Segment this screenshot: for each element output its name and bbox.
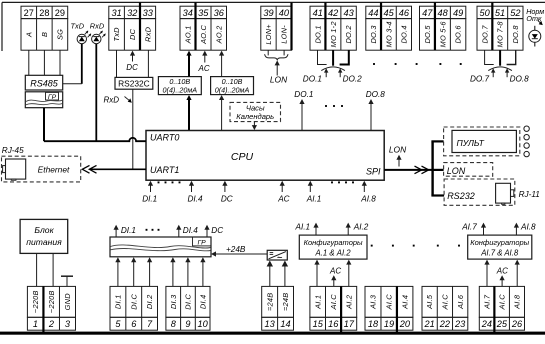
LED TxD (RS-485 transmit indicator) xyxy=(71,22,92,44)
svg-text:AI.7: AI.7 xyxy=(482,294,491,310)
svg-text:36: 36 xyxy=(214,8,225,18)
svg-text:AI.1: AI.1 xyxy=(295,222,311,231)
svg-text:AI.7: AI.7 xyxy=(461,222,477,231)
svg-text:26: 26 xyxy=(511,319,523,329)
left border wire xyxy=(1,2,3,51)
terminal block 1-3 (~220V,GND) xyxy=(27,286,75,330)
svg-text:SG: SG xyxy=(56,29,65,40)
configurator block AI.7 & AI.8 xyxy=(468,235,532,259)
svg-text:TxD: TxD xyxy=(112,27,121,42)
svg-text:AC: AC xyxy=(277,195,289,204)
clock/calendar dashed block xyxy=(230,102,281,121)
svg-text:Часы: Часы xyxy=(246,103,265,112)
label +24V wire into GR block xyxy=(211,245,267,257)
galvanic isolation block GR (discrete inputs) xyxy=(110,237,211,257)
svg-text:DC: DC xyxy=(128,28,137,40)
svg-text:AI.2: AI.2 xyxy=(345,295,354,310)
signal DI.1 arrow from GR block xyxy=(114,225,136,237)
svg-text:3: 3 xyxy=(65,319,71,329)
svg-text:8: 8 xyxy=(171,319,177,329)
svg-text:=24В: =24В xyxy=(281,293,290,311)
svg-text:RxD: RxD xyxy=(90,22,105,31)
svg-text:21: 21 xyxy=(424,319,435,329)
wire LED TxD to RS485 block xyxy=(81,44,83,84)
svg-text:DO.1: DO.1 xyxy=(303,75,322,84)
wire terminal 14 into converter xyxy=(284,266,286,287)
svg-text:AI.8: AI.8 xyxy=(520,222,536,231)
svg-text:~220В: ~220В xyxy=(31,290,40,313)
status LED Norm/Otk xyxy=(526,7,544,47)
svg-text:48: 48 xyxy=(438,8,449,18)
svg-text:+24В: +24В xyxy=(226,245,246,254)
DC/DC converter block above terminals 13-14 xyxy=(267,250,287,260)
svg-text:DO.8: DO.8 xyxy=(511,25,520,44)
svg-text:39: 39 xyxy=(263,8,273,18)
svg-text:Конфигураторы: Конфигураторы xyxy=(304,238,363,247)
svg-text:AO.1: AO.1 xyxy=(183,25,192,44)
label DC with arrow into terminal 32 xyxy=(126,51,138,72)
svg-text:AI.C: AI.C xyxy=(498,294,507,311)
thick bus drop wire at terminal block 34-36 (AO.1,AO.C,AO.2) xyxy=(194,2,196,50)
svg-text:DC: DC xyxy=(126,63,138,72)
svg-text:9: 9 xyxy=(185,319,190,329)
Ethernet dashed block xyxy=(2,156,81,182)
LON net funnel from terminals 39/40 xyxy=(265,50,288,84)
PULT (control panel) dashed block xyxy=(444,127,520,156)
signal AC arrow into CPU xyxy=(277,181,289,204)
wire RS232C down to UART1 net xyxy=(132,89,134,169)
svg-text:AI.8: AI.8 xyxy=(513,294,522,310)
svg-text:20: 20 xyxy=(399,319,411,329)
svg-text:LON: LON xyxy=(389,144,407,154)
terminal block 13-14 (=24V) xyxy=(262,286,294,330)
svg-text:AI.2: AI.2 xyxy=(353,222,369,231)
wire terminal 31 to RS232C xyxy=(116,50,118,77)
svg-text:AC: AC xyxy=(198,64,210,73)
svg-text:~220В: ~220В xyxy=(47,290,56,313)
svg-text:RxD: RxD xyxy=(104,95,120,104)
svg-text:35: 35 xyxy=(198,8,209,18)
svg-text:AI.4: AI.4 xyxy=(401,295,410,310)
wire converter #2 to terminal 36 (AO.2) xyxy=(221,55,223,77)
wire converter #1 to terminal 34 (AO.1) xyxy=(188,55,190,77)
svg-text:52: 52 xyxy=(510,8,520,18)
signal AI.7 arrow from configurator xyxy=(461,222,486,235)
terminal block 44-46 (DO.3,MO3-4,DO.4) xyxy=(366,6,412,50)
wire UART0 net with hop over RS232C wire xyxy=(44,138,146,141)
svg-text:DI.1: DI.1 xyxy=(142,195,157,204)
terminal block 31-33 (RS-232C: TxD,DC,RxD) xyxy=(109,6,156,50)
signal DI.4 arrow from GR block xyxy=(176,225,198,237)
svg-text:AI.1: AI.1 xyxy=(306,195,322,204)
wire terminal 15 into configurator xyxy=(316,264,318,287)
svg-text:16: 16 xyxy=(328,319,339,329)
svg-text:17: 17 xyxy=(344,319,355,329)
svg-text:AI.1: AI.1 xyxy=(313,295,322,310)
terminal block 41-43 (DO.1,MO1-2,DO.2) xyxy=(310,6,356,50)
relay changeover contact symbol DO.7/DO.8 (terminals 50-52) xyxy=(470,50,529,83)
svg-text:1: 1 xyxy=(33,319,38,329)
svg-text:29: 29 xyxy=(55,8,65,18)
thick bus drop wire at terminal block 47-49 (DO.5,MO5-6,DO.6) xyxy=(434,2,436,50)
svg-text:41: 41 xyxy=(313,8,323,18)
svg-text:0(4)..20мА: 0(4)..20мА xyxy=(215,85,250,94)
signal DO.1 arrow from CPU xyxy=(294,90,313,131)
signal DI.1 arrow into CPU xyxy=(142,181,157,204)
wire terminal 27 to RS485 xyxy=(28,50,30,75)
wire CPU to converter #2 xyxy=(221,99,223,131)
svg-text:44: 44 xyxy=(368,8,378,18)
svg-text:DO.3: DO.3 xyxy=(369,25,378,44)
label LON with arrow from SPI net xyxy=(389,144,407,166)
signal AI.8 arrow from configurator xyxy=(514,222,536,235)
svg-text:DI.4: DI.4 xyxy=(188,195,203,204)
svg-text:DI.4: DI.4 xyxy=(183,226,198,235)
svg-text:0(4)..20мА: 0(4)..20мА xyxy=(163,85,198,94)
svg-text:GND: GND xyxy=(63,293,72,311)
svg-text:RxD: RxD xyxy=(143,26,152,42)
svg-text:DI.1: DI.1 xyxy=(114,295,123,310)
svg-text:CPU: CPU xyxy=(231,151,254,163)
svg-text:DI.3: DI.3 xyxy=(169,294,178,309)
svg-text:42: 42 xyxy=(328,8,338,18)
svg-text:19: 19 xyxy=(384,319,394,329)
svg-text:DO.2: DO.2 xyxy=(343,75,363,84)
terminal block 8-10 (DI.3,DI.C,DI.4) xyxy=(166,286,210,330)
wire power block to terminal 1 xyxy=(36,253,38,286)
svg-text:AI.C: AI.C xyxy=(385,294,394,311)
wire terminal 33 to RS232C xyxy=(147,50,149,77)
signal AI.1 arrow into CPU xyxy=(306,181,322,204)
thick bus drop wire at terminal block 31-33 (RS-232C: TxD,DC,RxD) xyxy=(139,2,141,50)
svg-text:питания: питания xyxy=(26,237,62,247)
wire branch to PULT block xyxy=(431,140,443,142)
wire terminal 28 to RS485 xyxy=(43,50,45,75)
svg-text:25: 25 xyxy=(496,319,508,329)
dots between configurator blocks xyxy=(371,245,460,247)
svg-text:51: 51 xyxy=(495,8,505,18)
svg-text:Ethernet: Ethernet xyxy=(38,165,70,175)
svg-text:RS232C: RS232C xyxy=(118,78,150,88)
svg-text:DO.8: DO.8 xyxy=(366,90,386,99)
svg-text:32: 32 xyxy=(127,8,137,18)
svg-text:DI.C: DI.C xyxy=(129,294,138,310)
svg-text:LON: LON xyxy=(447,166,466,176)
svg-text:5: 5 xyxy=(115,319,121,329)
wire terminal 13 into converter xyxy=(269,266,271,287)
svg-text:AC: AC xyxy=(329,267,341,276)
label AC with arrow into terminal 35 (AO.C) xyxy=(198,51,210,73)
terminal block 15-17 (AI.1,AI.C,AI.2) xyxy=(310,286,357,330)
wire LED RxD down to UART0 net xyxy=(95,44,97,142)
label RxD tap on RS232C wire xyxy=(104,95,132,104)
svg-text:DO.5: DO.5 xyxy=(423,25,432,44)
svg-text:AI.6: AI.6 xyxy=(456,294,465,310)
thick bus drop wire at terminal block 41-43 (DO.1,MO1-2,DO.2) xyxy=(324,2,326,50)
terminal block 39-40 (LON+,LON-) xyxy=(261,6,292,50)
wire clock block to CPU xyxy=(253,122,255,127)
wire terminal 29 to RS485 xyxy=(59,50,61,75)
dots between DO signals xyxy=(325,105,343,107)
power supply block xyxy=(20,219,68,253)
svg-text:DO.1: DO.1 xyxy=(294,90,313,99)
terminal block 50-52 (DO.7,MO7-8,DO.8) xyxy=(477,6,523,50)
dots DI signals above GR xyxy=(146,229,160,231)
interface block RS485 xyxy=(25,75,62,90)
svg-text:AI.8: AI.8 xyxy=(360,195,376,204)
svg-text:AO.C: AO.C xyxy=(199,24,208,44)
svg-text:DO.8: DO.8 xyxy=(510,75,530,84)
LON interface dashed block xyxy=(444,163,493,177)
svg-text:AI.7 & AI.8: AI.7 & AI.8 xyxy=(480,249,519,258)
thick bus drop wire at terminal block 39-40 (LON+,LON-) xyxy=(290,2,292,50)
svg-text:46: 46 xyxy=(399,8,410,18)
svg-text:SPI: SPI xyxy=(366,167,381,177)
thick bus drop wire at terminal block 50-52 (DO.7,MO7-8,DO.8) xyxy=(491,2,493,50)
svg-text:DO.7: DO.7 xyxy=(470,75,490,84)
svg-text:18: 18 xyxy=(368,319,379,329)
svg-text:DO.6: DO.6 xyxy=(454,25,463,44)
label AC with arrow from terminal 25 xyxy=(496,267,508,287)
label AC with arrow from terminal 16 xyxy=(329,267,341,287)
svg-text:24: 24 xyxy=(481,319,492,329)
terminal block 34-36 (AO.1,AO.C,AO.2) xyxy=(180,6,227,50)
svg-text:AI.3: AI.3 xyxy=(369,294,378,310)
wire GR block down to UART0 net xyxy=(43,108,45,142)
bottom common bus wire xyxy=(0,332,545,335)
CPU block xyxy=(146,131,384,181)
svg-text:RS232: RS232 xyxy=(447,191,475,201)
svg-text:AI.C: AI.C xyxy=(441,294,450,311)
RS232 interface dashed block xyxy=(444,179,515,205)
svg-text:40: 40 xyxy=(279,8,290,18)
wire branch to LON block xyxy=(431,169,443,171)
svg-text:AO.2: AO.2 xyxy=(214,25,223,44)
terminal block 24-26 (AI.7,AI.C,AI.8) xyxy=(479,286,524,330)
wire SPI net from CPU xyxy=(384,169,432,171)
wire CPU to converter #1 xyxy=(188,99,190,131)
AO converter block 0..10V / 0(4)..20mA #1 xyxy=(158,77,201,95)
RJ-11 connector icon xyxy=(496,183,514,204)
svg-text:MO 5-6: MO 5-6 xyxy=(438,21,447,48)
wire RS485 to TxD LED xyxy=(63,83,82,85)
svg-text:ПУЛЬТ: ПУЛЬТ xyxy=(457,138,485,148)
svg-text:14: 14 xyxy=(280,319,290,329)
wire trunk to panel blocks xyxy=(431,141,433,195)
svg-text:LON+: LON+ xyxy=(264,24,273,45)
svg-text:B: B xyxy=(40,32,49,37)
thick bus drop wire at terminal block 1-3 (~220V,GND) xyxy=(42,286,44,333)
svg-text:47: 47 xyxy=(422,8,433,18)
terminal block 47-49 (DO.5,MO5-6,DO.6) xyxy=(420,6,466,50)
svg-text:А.1 & AI.2: А.1 & AI.2 xyxy=(315,249,352,258)
dots DI signals xyxy=(158,181,181,183)
configurator block AI.1 & AI.2 xyxy=(299,235,367,259)
svg-text:27: 27 xyxy=(24,8,34,18)
thick bus drop wire at terminal block 18-20 (AI.3,AI.C,AI.4) xyxy=(396,286,398,333)
svg-text:Конфигураторы: Конфигураторы xyxy=(470,238,529,247)
interface block RS232C xyxy=(115,77,153,89)
svg-text:DI.1: DI.1 xyxy=(121,226,136,235)
chevron arrows into Ethernet block xyxy=(82,165,96,173)
svg-text:34: 34 xyxy=(183,8,193,18)
terminal block 27-29 (RS-485: A,B,SG) xyxy=(21,6,68,50)
svg-text:50: 50 xyxy=(480,8,491,18)
thick bus drop wire at terminal block 44-46 (DO.3,MO3-4,DO.4) xyxy=(380,2,382,50)
svg-text:AC: AC xyxy=(496,267,508,276)
signal AI.8 arrow into CPU xyxy=(360,181,376,204)
svg-text:23: 23 xyxy=(454,319,466,329)
svg-text:DI.2: DI.2 xyxy=(145,295,154,310)
svg-text:AI.C: AI.C xyxy=(329,294,338,311)
LED RxD (RS-485 receive indicator) xyxy=(90,22,106,44)
svg-text:=24В: =24В xyxy=(265,293,274,311)
svg-text:RJ-45: RJ-45 xyxy=(2,146,24,155)
panel connector circles xyxy=(524,126,529,157)
svg-text:A: A xyxy=(24,32,33,38)
dots AI signals xyxy=(331,181,354,183)
signal DC arrow into CPU xyxy=(221,181,233,204)
svg-text:LON: LON xyxy=(270,74,288,84)
svg-text:ГР: ГР xyxy=(48,94,57,101)
svg-text:DC: DC xyxy=(221,195,233,204)
svg-text:ГР: ГР xyxy=(197,239,206,246)
wire branch to RS232 block xyxy=(431,194,444,196)
svg-text:UART0: UART0 xyxy=(150,133,179,143)
signal AI.2 arrow from configurator xyxy=(346,222,369,235)
svg-text:45: 45 xyxy=(384,8,395,18)
wire terminal 17 into configurator xyxy=(348,264,350,287)
svg-text:AI.5: AI.5 xyxy=(425,294,434,310)
svg-text:6: 6 xyxy=(131,319,137,329)
svg-text:Блок: Блок xyxy=(34,225,54,235)
svg-text:2: 2 xyxy=(48,319,54,329)
signal DC arrow from GR block xyxy=(204,225,223,237)
svg-text:49: 49 xyxy=(453,8,463,18)
signal AI.1 arrow from configurator xyxy=(295,222,319,235)
thick bus drop wire at terminal block 15-17 (AI.1,AI.C,AI.2) xyxy=(340,286,342,333)
svg-text:MO 1-2: MO 1-2 xyxy=(329,21,338,47)
svg-text:RJ-11: RJ-11 xyxy=(519,190,540,199)
chevron arrows on SPI net xyxy=(415,166,429,174)
svg-text:Календарь: Календарь xyxy=(236,112,274,121)
ground symbol above terminal 3 xyxy=(61,276,73,286)
svg-text:7: 7 xyxy=(147,319,153,329)
svg-text:22: 22 xyxy=(439,319,450,329)
svg-text:DO.4: DO.4 xyxy=(399,25,408,43)
signal DI.4 arrow into CPU xyxy=(188,181,203,204)
svg-text:DC: DC xyxy=(211,226,223,235)
svg-text:DO.7: DO.7 xyxy=(480,25,489,44)
svg-text:DO.2: DO.2 xyxy=(344,25,353,43)
terminal block 5-7 (DI.1,DI.C,DI.2) xyxy=(110,286,158,330)
wire terminal 26 into configurator xyxy=(516,264,518,287)
svg-text:UART1: UART1 xyxy=(150,165,179,175)
wire UART1 net xyxy=(91,168,147,170)
svg-text:TxD: TxD xyxy=(71,22,85,31)
relay changeover contact symbol DO.1/DO.2 (terminals 41-43) xyxy=(303,50,362,83)
svg-text:DI.4: DI.4 xyxy=(198,295,207,310)
dots between relay groups xyxy=(373,63,462,65)
signal DO.8 arrow from CPU xyxy=(366,90,386,131)
galvanic isolation block GR under RS485 xyxy=(25,92,62,108)
svg-text:RS485: RS485 xyxy=(30,78,59,88)
svg-text:DI.C: DI.C xyxy=(184,294,193,310)
wire terminal 24 into configurator xyxy=(486,264,488,287)
terminal block 21-23 (AI.5,AI.C,AI.6) xyxy=(422,286,468,330)
svg-text:31: 31 xyxy=(111,8,121,18)
thick bus drop wire at terminal block 24-26 (AI.7,AI.C,AI.8) xyxy=(493,286,495,333)
wires terminals 5-10 into GR block xyxy=(115,257,205,286)
svg-text:DO.1: DO.1 xyxy=(313,25,322,43)
svg-text:33: 33 xyxy=(143,8,154,18)
RJ-45 connector icon xyxy=(3,159,26,180)
svg-text:13: 13 xyxy=(265,319,276,329)
svg-text:10: 10 xyxy=(198,319,209,329)
terminal block 18-20 (AI.3,AI.C,AI.4) xyxy=(365,286,413,330)
svg-text:MO 7-8: MO 7-8 xyxy=(496,21,505,48)
svg-text:MO 3-4: MO 3-4 xyxy=(384,21,393,47)
wire power block to terminal 2 xyxy=(52,253,54,286)
svg-text:15: 15 xyxy=(313,319,324,329)
svg-text:LON-: LON- xyxy=(279,25,288,44)
svg-text:43: 43 xyxy=(343,8,354,18)
AO converter block 0..10V / 0(4)..20mA #2 xyxy=(211,77,254,95)
svg-text:28: 28 xyxy=(39,8,49,18)
top bus wire xyxy=(2,1,545,3)
